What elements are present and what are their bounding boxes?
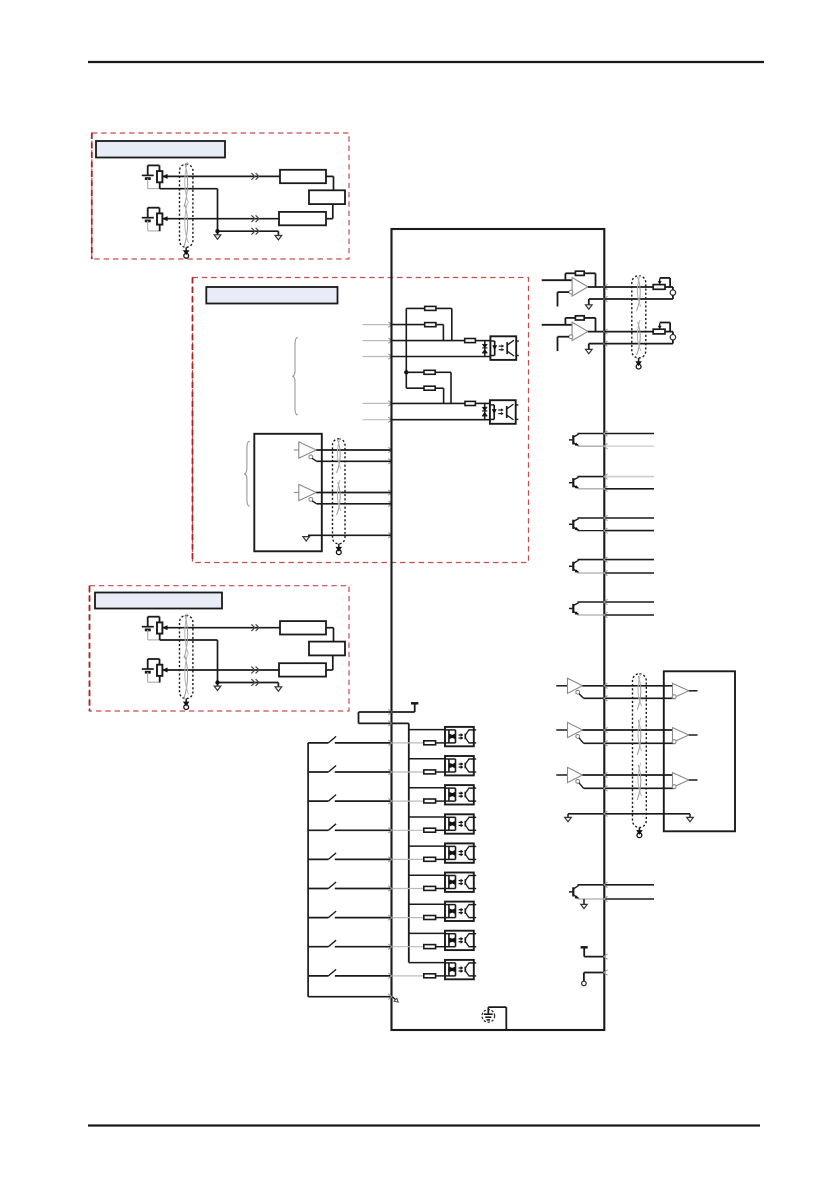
wire DI1 bus feed xyxy=(409,729,446,731)
battery BT1b xyxy=(142,208,160,231)
resistor R4 xyxy=(406,370,451,374)
optocoupler UD7 xyxy=(445,902,476,921)
optocoupler UD9 xyxy=(445,960,476,979)
optocoupler U1 xyxy=(490,336,518,360)
pulse box title bar xyxy=(206,287,337,304)
connector chevron input 1 box 3 xyxy=(251,624,259,631)
wire rheostat to meter 5 xyxy=(665,287,673,290)
AI box 3 title bar xyxy=(95,593,222,609)
resistor RD2 xyxy=(424,770,446,774)
line driver D4 xyxy=(556,722,583,743)
ground arrow AGND U3 xyxy=(586,305,593,309)
wire pulse signal 1 (grey) xyxy=(363,322,392,327)
connector chevron input 1 box 1 xyxy=(251,173,259,180)
connector chevron GND line (1) xyxy=(251,228,259,235)
wire D4+ line xyxy=(583,727,673,732)
wire DI5 (grey) xyxy=(393,858,424,860)
wire DI8 bus feed xyxy=(409,932,446,934)
wire DI4 (grey) xyxy=(393,829,424,831)
switch SW8 xyxy=(308,940,392,949)
wire DI9 (grey) xyxy=(393,975,424,977)
shield drain ground (3) xyxy=(184,699,189,710)
feedback resistor op-amp U4 xyxy=(565,316,595,332)
feedback resistor op-amp U3 xyxy=(565,271,595,287)
wire encoder output ground xyxy=(568,811,690,817)
wire input1 box to GND box (3) xyxy=(326,628,334,642)
wire D4- line xyxy=(584,741,676,746)
resistor R6 xyxy=(465,401,490,405)
transistor Q1 xyxy=(569,434,579,446)
shield drain ground analog out xyxy=(636,358,641,369)
shielded cable (1) xyxy=(180,162,193,247)
wire Q1 emitter xyxy=(578,444,655,449)
meter M5 xyxy=(670,290,675,295)
wire input1 box to GND box (1) xyxy=(326,176,334,190)
ground arrow host signal ground xyxy=(303,537,310,541)
blank label box GND (1) xyxy=(309,190,345,204)
blank label box input 2 (1) xyxy=(279,212,326,225)
optocoupler UD1 xyxy=(445,727,476,746)
potentiometer RP1b xyxy=(148,208,163,232)
receiver R1 xyxy=(672,683,697,698)
connector chevron GND line (3) xyxy=(251,679,259,686)
shield drain ground encoder xyxy=(637,828,642,838)
page top rule xyxy=(88,61,764,63)
pulse reference box (dashed) xyxy=(193,278,529,563)
wire Q5 emitter xyxy=(578,612,655,617)
wire Q4 collector xyxy=(578,557,655,562)
shield drain ground (1) xyxy=(184,247,189,258)
switch SW1 xyxy=(308,736,392,745)
resistor R3 xyxy=(465,339,491,343)
wire op-amp U3 return (AGND) xyxy=(589,296,608,304)
wire R5 right drop xyxy=(443,388,445,403)
resistor RD5 xyxy=(424,857,446,861)
DI power bus xyxy=(392,723,409,962)
wire Q3 emitter xyxy=(578,528,655,533)
transistor Q4 xyxy=(569,560,579,572)
potentiometer RP1a xyxy=(148,165,163,188)
optocoupler UD8 xyxy=(445,931,476,950)
rheostat RP5 xyxy=(653,278,670,289)
DICOM stub arrow xyxy=(392,997,398,1003)
resistor R5 xyxy=(406,386,443,390)
wire DI6 bus feed xyxy=(409,874,446,876)
wire DI common return xyxy=(308,994,392,999)
wire RP3b wiper to input 2 xyxy=(162,668,279,672)
resistor RD6 xyxy=(424,886,446,890)
wire pulse signal 3 (grey) xyxy=(363,354,392,359)
resistor RD7 xyxy=(424,916,446,920)
wire R2 right drop xyxy=(442,325,444,341)
wire op-amp U3 non-inverting input xyxy=(542,279,572,281)
shielded cable pulse xyxy=(333,438,346,544)
wire op-amp U3 inverting input xyxy=(558,292,570,306)
wire Q6 collector xyxy=(578,882,655,887)
wire pulse line 3 xyxy=(392,356,491,358)
wire pulse signal 2 (grey) xyxy=(363,338,392,343)
diode pair VD1 xyxy=(482,341,487,357)
wire R4 right drop xyxy=(450,372,452,403)
wire +24V to edge xyxy=(388,709,414,714)
transistor Q5 xyxy=(569,603,579,615)
wire DI3 bus feed xyxy=(409,787,446,789)
DI switch common bus xyxy=(307,743,309,997)
resistor R1 xyxy=(406,306,452,310)
resistor RD3 xyxy=(424,799,446,803)
resistor RD8 xyxy=(424,945,446,949)
wire RP1b wiper to input 2 xyxy=(162,217,279,221)
potentiometer RP3b xyxy=(148,659,163,683)
ground arrow encoder GND left xyxy=(565,817,572,821)
wire D1- to drive xyxy=(317,459,392,464)
switch SW6 xyxy=(308,882,392,891)
ground arrow encoder GND right xyxy=(687,817,694,821)
+24V rail DI xyxy=(411,703,418,712)
optocoupler UD4 xyxy=(445,814,476,833)
connector chevron input 2 box 1 xyxy=(251,215,259,222)
switch SW7 xyxy=(308,911,392,920)
battery BT1a xyxy=(142,165,160,188)
wire meter return 5 xyxy=(604,295,673,299)
wire pulse signal 5 (grey) xyxy=(363,417,392,422)
blank label box input 1 (1) xyxy=(280,170,326,183)
line driver D2 xyxy=(294,484,317,503)
host receiver box xyxy=(664,671,735,831)
wire GND box to input2 box (1) xyxy=(326,204,333,219)
transistor Q2 xyxy=(569,477,579,488)
wire DI7 bus feed xyxy=(409,903,446,905)
wire Q3 collector xyxy=(578,515,655,520)
PE terminal xyxy=(482,1007,506,1029)
wire D3+ line xyxy=(583,683,673,688)
wire DI2 bus feed xyxy=(409,758,446,760)
ground arrow at RP common (1) xyxy=(214,235,221,239)
receiver R3 xyxy=(672,773,697,789)
switch SW3 xyxy=(308,795,392,804)
wire meter return 6 xyxy=(604,340,673,344)
wire common return line (3) xyxy=(216,681,278,687)
page bottom rule xyxy=(88,1124,760,1126)
wire Q6 emitter xyxy=(578,896,655,901)
potentiometer RP3a xyxy=(148,617,163,640)
wire RP1a low side to common (1) xyxy=(160,189,218,235)
wire D5+ line xyxy=(583,772,673,777)
wire Q4 emitter xyxy=(578,570,655,575)
brace pulse signal group xyxy=(292,338,298,416)
wire DI1 (grey) xyxy=(393,742,424,744)
wire op-amp U4 output xyxy=(588,329,608,334)
wire RP3a wiper to input 1 xyxy=(162,626,280,630)
battery BT3a xyxy=(142,617,160,640)
AI wiring example box 3 (dashed) xyxy=(90,586,350,711)
terminal COM stub xyxy=(582,970,608,986)
wire DI2 (grey) xyxy=(393,771,424,773)
ground arrow at GND line end (3) xyxy=(275,687,282,691)
host controller output box xyxy=(254,434,321,552)
line driver D5 xyxy=(556,767,583,788)
wire D2- to drive xyxy=(317,501,392,506)
+24V rail stub xyxy=(581,947,608,959)
wire op-amp U4 return (AGND) xyxy=(589,341,608,349)
wire analog out 6 xyxy=(604,331,653,333)
diode pair VD2 xyxy=(482,403,487,419)
optocoupler U2 xyxy=(490,400,518,424)
wire common return line (1) xyxy=(216,230,278,236)
brace host outputs xyxy=(244,441,250,506)
wire DI3 (grey) xyxy=(393,800,424,802)
resistor RD9 xyxy=(424,974,446,978)
shielded cable analog out xyxy=(632,275,646,358)
wire op-amp U3 output xyxy=(588,284,608,289)
wire op-amp U4 inverting input xyxy=(558,337,570,351)
external jumper +24V to DICOM xyxy=(359,712,392,726)
blank label box GND (3) xyxy=(309,642,345,656)
wire signal ground to drive xyxy=(308,533,392,538)
wire analog out 5 xyxy=(604,286,653,288)
AI box 1 title bar xyxy=(96,141,225,158)
optocoupler UD5 xyxy=(445,843,476,862)
wire Q2 emitter xyxy=(578,486,655,491)
ground arrow AGND U4 xyxy=(586,349,593,353)
switch SW4 xyxy=(308,824,392,833)
connector chevron input 2 box 3 xyxy=(251,667,259,674)
wire Q1 collector xyxy=(578,431,655,436)
pulse divider bus xyxy=(405,308,408,388)
wire pulse line 2 xyxy=(392,340,465,342)
resistor RD4 xyxy=(424,828,446,832)
op-amp U3 xyxy=(569,278,588,297)
resistor R2 xyxy=(392,323,444,327)
resistor RD1 xyxy=(424,741,446,745)
wire DI8 (grey) xyxy=(393,946,424,948)
AI wiring example box 1 (dashed) xyxy=(92,133,349,259)
battery BT3b xyxy=(142,659,160,682)
receiver R2 xyxy=(672,728,697,744)
transistor Q6 xyxy=(569,885,579,898)
wire D3- line xyxy=(584,696,676,701)
blank label box input 1 (3) xyxy=(280,621,326,634)
wire D2+ to drive xyxy=(316,490,392,495)
op-amp U4 xyxy=(569,322,588,341)
wire D1+ to drive xyxy=(316,447,392,452)
optocoupler UD3 xyxy=(445,785,476,804)
wire D5- line xyxy=(584,786,676,791)
wire DI7 (grey) xyxy=(393,917,424,919)
wire RP3a low side to common (3) xyxy=(160,640,218,686)
line driver D1 xyxy=(294,442,317,461)
switch SW9 xyxy=(308,969,392,978)
wire R1 right drop xyxy=(451,308,453,340)
wire DI4 bus feed xyxy=(409,816,446,818)
shielded cable encoder out xyxy=(633,674,647,828)
wire RP1a wiper to input 1 xyxy=(162,174,280,178)
switch SW5 xyxy=(308,853,392,862)
wire pulse line 6 xyxy=(392,419,490,421)
shield drain ground pulse xyxy=(336,544,341,555)
wire DI6 (grey) xyxy=(393,888,424,890)
wire op-amp U4 non-inverting input xyxy=(542,324,572,326)
wire rheostat to meter 6 xyxy=(665,332,673,335)
blank label box input 2 (3) xyxy=(279,663,326,676)
switch SW2 xyxy=(308,766,392,775)
ground arrow Q6 emitter xyxy=(581,899,587,909)
wire GND box to input2 box (3) xyxy=(326,655,333,670)
optocoupler UD6 xyxy=(445,873,476,892)
wire DI9 bus feed xyxy=(409,962,446,964)
shielded cable (3) xyxy=(180,613,193,698)
wire Q2 collector xyxy=(578,474,655,479)
wire Q5 collector xyxy=(578,599,655,604)
ground arrow at RP common (3) xyxy=(214,686,221,690)
ground arrow at GND line end (1) xyxy=(275,236,282,240)
optocoupler UD2 xyxy=(445,756,476,775)
wire pulse line 5 xyxy=(392,402,466,404)
meter M6 xyxy=(670,335,675,340)
servo drive outline xyxy=(392,229,605,1030)
wire DI5 bus feed xyxy=(409,845,446,847)
transistor Q3 xyxy=(569,519,579,531)
line driver D3 xyxy=(556,678,583,698)
rheostat RP6 xyxy=(653,323,670,334)
wire pulse signal 4 (grey) xyxy=(363,401,392,406)
